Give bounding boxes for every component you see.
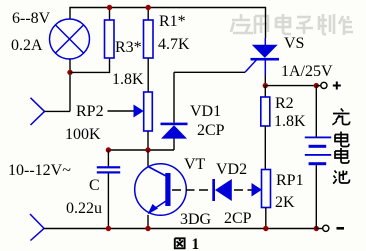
junction: cap bottom (106, 226, 111, 231)
svg-text:1: 1 (192, 236, 200, 251)
junction: top rail / R1 (146, 5, 151, 10)
label - (337, 227, 345, 230)
caption 图 1 (175, 238, 185, 248)
junction: battery bottom (314, 226, 319, 231)
wire: node row y=150 (108, 149, 174, 151)
terminal: + output circle (316, 82, 327, 88)
svg-text:6--8V: 6--8V (12, 10, 51, 27)
wire: lamp node to R3 bottom (70, 58, 110, 72)
lamp HL (6--8V 0.2A) (50, 19, 90, 59)
junction: VT emitter (145, 226, 150, 231)
resistor R1 (144, 8, 154, 93)
wire: lamp bottom lead (69, 59, 71, 111)
svg-text:VD1: VD1 (190, 103, 221, 120)
svg-text:RP1: RP1 (276, 172, 304, 189)
svg-text:10--12V~: 10--12V~ (8, 162, 71, 179)
svg-text:2K: 2K (275, 194, 295, 211)
diode VD1 (161, 72, 188, 150)
wire: VD2 to RP1 wiper dashed (234, 189, 252, 191)
svg-text:0.22u: 0.22u (66, 200, 102, 217)
transistor VT (135, 150, 187, 229)
terminal: AC input lower chevron (30, 214, 44, 241)
svg-text:0.2A: 0.2A (11, 37, 43, 54)
resistor R3 (105, 8, 115, 59)
junction: RP1 bottom (263, 226, 268, 231)
potentiometer RP2 (134, 92, 153, 150)
svg-text:R2: R2 (275, 95, 294, 112)
svg-text:VT: VT (184, 156, 206, 173)
wire: + rail to terminal (265, 85, 316, 87)
svg-text:1.8K: 1.8K (274, 113, 306, 130)
battery GB (305, 86, 331, 229)
label 池 (333, 171, 350, 184)
junction: lamp bottom node (67, 70, 72, 75)
wire: bottom rail (44, 228, 316, 230)
terminal: AC input upper chevron (31, 98, 45, 125)
svg-text:4.7K: 4.7K (158, 36, 190, 53)
junction: RP2/VT node (145, 147, 150, 152)
label + (333, 82, 341, 90)
watermark 实用电子制作 (faint) (231, 14, 353, 35)
svg-text:VD2: VD2 (216, 161, 247, 178)
potentiometer RP1 (252, 170, 271, 229)
label 电 (lower) (335, 148, 349, 163)
svg-text:1.8K: 1.8K (112, 71, 144, 88)
svg-text:VS: VS (284, 35, 304, 52)
wire: top rail (70, 8, 266, 39)
svg-text:R1*: R1* (159, 13, 186, 30)
label 电 (upper) (335, 132, 349, 147)
wire: RP2 wiper lead (108, 110, 135, 112)
svg-text:RP2: RP2 (76, 103, 104, 120)
svg-text:R3*: R3* (115, 39, 142, 56)
thyristor VS (245, 38, 279, 86)
wire: VT base dashed link (172, 189, 212, 191)
svg-text:3DG: 3DG (180, 211, 212, 228)
diode VD2 (212, 179, 232, 201)
capacitor C (97, 150, 120, 229)
svg-text:100K: 100K (65, 126, 101, 143)
svg-text:1A/25V: 1A/25V (281, 63, 333, 80)
junction: + terminal node (314, 83, 319, 88)
resistor R2 (261, 86, 270, 170)
wire: upper input to lamp node (45, 110, 71, 112)
junction: anode node (+ rail) (263, 83, 268, 88)
terminal: - output circle (316, 225, 329, 231)
svg-text:2CP: 2CP (224, 210, 252, 227)
svg-text:C: C (89, 177, 100, 194)
label 充 (332, 109, 349, 125)
wiper arrow RP1 (252, 184, 262, 197)
junction: cap top node (106, 147, 111, 152)
svg-text:2CP: 2CP (197, 122, 225, 139)
junction: top rail / R3 (107, 5, 112, 10)
wire: VS gate run (174, 71, 245, 73)
